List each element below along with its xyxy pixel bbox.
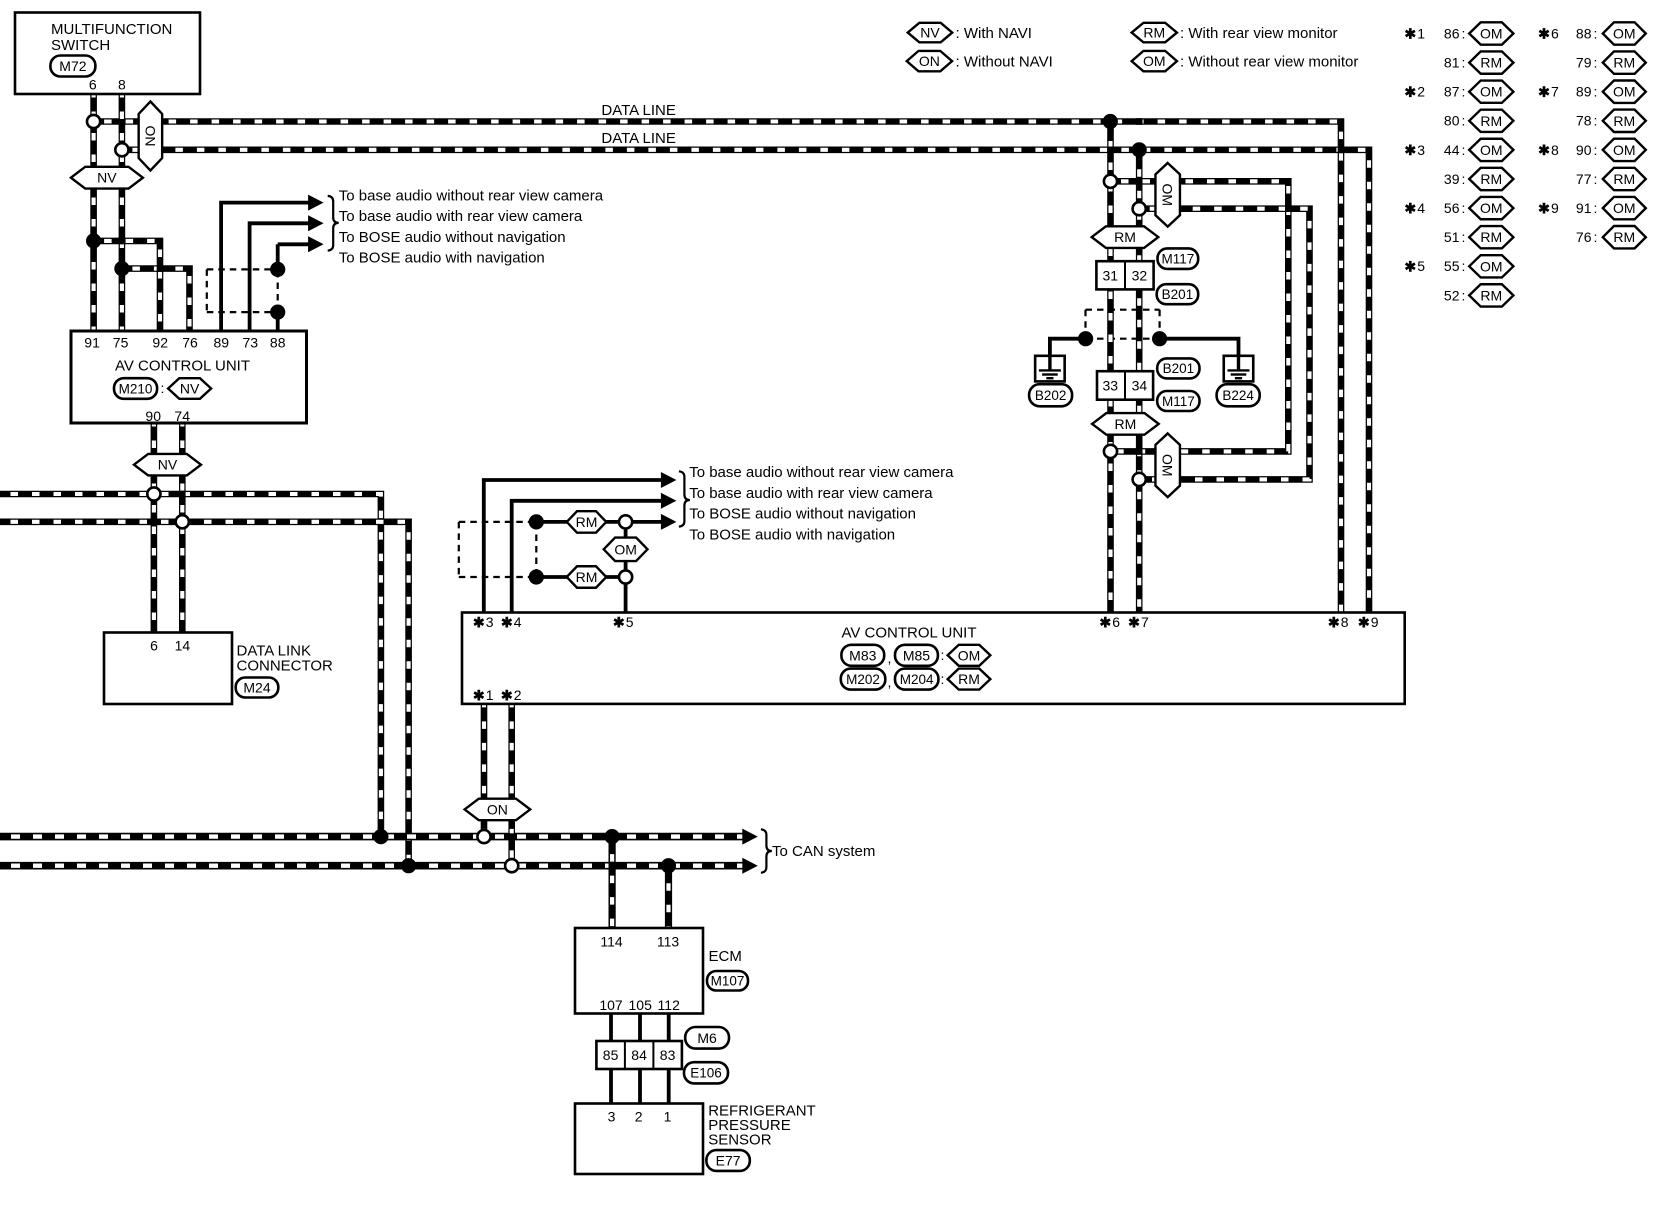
svg-text:OM: OM	[1480, 25, 1503, 41]
arrow to BOSE audio (top)	[308, 236, 324, 252]
svg-text::: :	[941, 647, 945, 663]
junction dot shield top (pin 88)	[270, 262, 285, 277]
pin table left row 87:OM	[1406, 86, 1415, 97]
svg-text:91: 91	[1576, 200, 1592, 216]
svg-text:39: 39	[1444, 171, 1460, 187]
svg-text:5: 5	[626, 614, 634, 630]
connector box 31/32	[1096, 261, 1153, 289]
svg-text:2: 2	[514, 687, 522, 703]
svg-text:RM: RM	[1613, 171, 1635, 187]
option RM hexagon	[948, 669, 991, 690]
multifunction switch M72 box	[15, 13, 200, 95]
wire AV control unit *4 to base audio arrow	[512, 501, 664, 613]
svg-text:OM: OM	[614, 541, 637, 557]
pin table left row 55:OM	[1406, 261, 1415, 272]
connector M107	[707, 971, 748, 991]
svg-text:To BOSE audio without navigati: To BOSE audio without navigation	[689, 506, 916, 523]
svg-text:7: 7	[1551, 84, 1559, 100]
svg-text:NV: NV	[920, 25, 940, 41]
bracket middle group	[679, 471, 690, 526]
svg-text::: :	[1462, 55, 1466, 71]
svg-text:77: 77	[1576, 171, 1592, 187]
svg-text:OM: OM	[1160, 454, 1176, 477]
svg-text:,: ,	[888, 650, 892, 666]
wire right vertical V2 (data line) to *7	[1136, 150, 1143, 613]
svg-text::: :	[1462, 113, 1466, 129]
wire AV control unit pin 74 to data link connector pin 14	[179, 423, 186, 633]
wire AV control unit pin 90 to data link connector pin 6	[151, 423, 158, 633]
connector B224	[1217, 384, 1260, 406]
svg-text:RM: RM	[958, 671, 980, 687]
svg-text:4: 4	[1417, 200, 1425, 216]
svg-text:76: 76	[1576, 229, 1592, 245]
wire ECM pin 107 to joint connector 85	[609, 1014, 613, 1042]
connector box 33/34	[1097, 371, 1153, 400]
svg-text:OM: OM	[958, 647, 981, 663]
svg-text:RM: RM	[1613, 113, 1635, 129]
wire AV control unit *1 to CAN line H	[481, 704, 488, 837]
node open circle 90/data line 3	[147, 487, 160, 500]
svg-text:To base audio without rear vie: To base audio without rear view camera	[689, 464, 954, 481]
svg-text:RM: RM	[1480, 287, 1502, 303]
bracket CAN	[761, 829, 772, 872]
svg-text:M202: M202	[846, 672, 880, 687]
connector M202	[841, 669, 886, 690]
node open circle bypass1 top	[1104, 175, 1117, 188]
wire branch to AV control unit pin 92	[94, 241, 160, 331]
svg-text:2: 2	[635, 1109, 643, 1125]
svg-text::: :	[1594, 229, 1598, 245]
svg-text:OM: OM	[1480, 142, 1503, 158]
svg-text:2: 2	[1417, 84, 1425, 100]
svg-text:To base audio with rear view c: To base audio with rear view camera	[689, 485, 933, 502]
arrow CAN H	[742, 829, 758, 845]
svg-text:34: 34	[1132, 378, 1148, 394]
pin *7	[1129, 617, 1138, 628]
wire AV control unit pin 89 to base audio arrow	[221, 203, 317, 331]
svg-text:105: 105	[629, 997, 653, 1013]
arrow CAN L	[742, 858, 758, 874]
svg-text::: :	[1594, 25, 1598, 41]
pin *4	[502, 617, 511, 628]
node open circle bypass2 top	[1133, 202, 1146, 215]
svg-text:79: 79	[1576, 55, 1592, 71]
connector M85	[895, 645, 938, 666]
wire ECM pin 112 to joint connector 83	[667, 1014, 671, 1042]
node open circle *1/CAN H	[477, 830, 490, 843]
svg-text::: :	[161, 380, 165, 396]
svg-text:32: 32	[1132, 268, 1148, 284]
svg-text:113: 113	[657, 934, 680, 950]
option RM hexagon middle 1	[567, 511, 607, 533]
svg-text:1: 1	[664, 1109, 672, 1125]
svg-text:OM: OM	[1613, 142, 1636, 158]
svg-text:92: 92	[152, 335, 168, 351]
wire OM bypass loop 1	[1111, 181, 1289, 451]
node open circle bypass2 bottom	[1133, 473, 1146, 486]
wire data line 4 (left) to CAN junction	[0, 522, 409, 866]
connector B201	[1157, 358, 1199, 378]
node open circle 74/data line 4	[176, 515, 189, 528]
svg-text:14: 14	[175, 638, 191, 654]
svg-text:NV: NV	[158, 457, 178, 473]
svg-text:44: 44	[1444, 142, 1460, 158]
junction dot shield bottom (pin 88)	[270, 305, 285, 320]
svg-text::: :	[1462, 200, 1466, 216]
junction dot data line2/V2	[1132, 142, 1147, 157]
svg-text:9: 9	[1551, 200, 1559, 216]
connector M72	[50, 56, 95, 77]
svg-text:B202: B202	[1035, 388, 1067, 403]
arrow to base audio with rear view camera (top)	[308, 215, 324, 231]
svg-text:RM: RM	[1143, 25, 1165, 41]
wire splice to RM 2	[536, 575, 625, 579]
wire multifunction switch pin 8 to AV control unit pin 75	[119, 94, 126, 331]
pin table right row 88:OM	[1539, 28, 1548, 39]
svg-text::: :	[1462, 142, 1466, 158]
node open circle pin8/data line 2	[115, 143, 128, 156]
option ON hexagon vertical (data lines)	[139, 102, 163, 171]
legend ON hexagon	[907, 51, 952, 71]
svg-text:: Without NAVI: : Without NAVI	[956, 54, 1053, 71]
svg-text:M210: M210	[119, 381, 153, 396]
option ON hexagon (*1/*2 wires)	[465, 799, 531, 821]
wire branch to AV control unit pin 76	[122, 269, 190, 331]
wire splice to RM 1	[536, 520, 625, 524]
pin table right row 89:OM	[1539, 86, 1548, 97]
svg-text:OM: OM	[1480, 258, 1503, 274]
svg-text:M107: M107	[711, 974, 745, 989]
svg-text:6: 6	[1112, 614, 1120, 630]
svg-text:3: 3	[486, 614, 494, 630]
pin *5	[614, 617, 623, 628]
svg-text:RM: RM	[1480, 113, 1502, 129]
pin *9	[1359, 617, 1368, 628]
connector M204	[895, 669, 938, 690]
arrow to base audio w/o rear view camera (middle)	[661, 472, 677, 488]
wire CAN line H to CAN system	[0, 833, 744, 841]
svg-text:SENSOR: SENSOR	[708, 1131, 772, 1148]
svg-text:80: 80	[1444, 113, 1460, 129]
connector B202	[1029, 384, 1072, 406]
svg-text:M204: M204	[900, 672, 934, 687]
svg-text:86: 86	[1444, 25, 1460, 41]
svg-text:: Without rear view monitor: : Without rear view monitor	[1180, 54, 1358, 71]
svg-text::: :	[1462, 84, 1466, 100]
connector M6	[685, 1027, 729, 1049]
wire data line 1 DATA LINE from multifunction switch pin 6 to *8	[94, 122, 1341, 614]
svg-text:RM: RM	[1114, 229, 1136, 245]
svg-text:To BOSE audio with navigation: To BOSE audio with navigation	[339, 250, 545, 267]
svg-text::: :	[1462, 25, 1466, 41]
svg-text:MULTIFUNCTION: MULTIFUNCTION	[51, 21, 172, 38]
svg-text:ON: ON	[487, 801, 508, 817]
svg-text:RM: RM	[1480, 229, 1502, 245]
svg-text:B201: B201	[1163, 361, 1195, 376]
wire CAN line H to ECM pin 114	[608, 837, 615, 928]
junction dot CAN L / ECM 113	[661, 858, 676, 873]
svg-text:83: 83	[660, 1047, 676, 1063]
pin table left row 44:OM	[1406, 145, 1415, 156]
connector M210	[114, 378, 157, 399]
joint connector box 85/84/83	[596, 1041, 682, 1069]
pin *2	[502, 690, 511, 701]
svg-text:85: 85	[603, 1047, 619, 1063]
svg-text:To BOSE audio with navigation: To BOSE audio with navigation	[689, 527, 895, 544]
svg-text:88: 88	[1576, 25, 1592, 41]
svg-text:DATA LINE: DATA LINE	[601, 102, 675, 119]
svg-text:ON: ON	[919, 53, 940, 69]
svg-text:84: 84	[631, 1047, 647, 1063]
svg-text:B224: B224	[1222, 388, 1254, 403]
node open circle bypass1 bottom	[1104, 445, 1117, 458]
svg-text:To base audio with rear view c: To base audio with rear view camera	[339, 208, 583, 225]
svg-text::: :	[1594, 113, 1598, 129]
svg-text:OM: OM	[1160, 184, 1176, 207]
svg-text:NV: NV	[97, 170, 117, 186]
svg-text:6: 6	[1551, 25, 1559, 41]
svg-text:E77: E77	[716, 1152, 741, 1168]
svg-text:OM: OM	[1480, 84, 1503, 100]
svg-text::: :	[1594, 55, 1598, 71]
ground B202	[1035, 356, 1065, 382]
option OM hexagon middle	[604, 538, 648, 562]
svg-text:78: 78	[1576, 113, 1592, 129]
option OM hexagon	[948, 645, 991, 666]
svg-text::: :	[1594, 84, 1598, 100]
svg-text:M24: M24	[243, 679, 270, 695]
svg-text:91: 91	[84, 335, 100, 351]
svg-text:73: 73	[243, 335, 259, 351]
pin table left row 86:OM	[1406, 28, 1415, 39]
svg-text:To BOSE audio without navigati: To BOSE audio without navigation	[339, 229, 566, 246]
pin table right row 90:OM	[1539, 145, 1548, 156]
svg-text::: :	[941, 671, 945, 687]
svg-text:114: 114	[600, 934, 623, 950]
svg-text:E106: E106	[690, 1066, 722, 1081]
svg-text:: With NAVI: : With NAVI	[956, 25, 1032, 42]
svg-text:75: 75	[113, 335, 129, 351]
shield dashed box near AV control unit M210 pins 89/73/88	[207, 268, 278, 270]
pin *3	[474, 617, 483, 628]
junction dot shield right / B224	[1152, 331, 1167, 346]
svg-text::: :	[1594, 200, 1598, 216]
junction dot data line4/CAN L	[401, 858, 416, 873]
connector M83	[841, 645, 884, 666]
connector E77	[706, 1150, 749, 1171]
wire data line 3 (left) to CAN junction	[0, 494, 381, 837]
wire CAN line L to ECM pin 113	[665, 866, 672, 928]
svg-text:6: 6	[150, 638, 158, 654]
svg-text:1: 1	[1417, 25, 1425, 41]
AV control unit M210 box	[71, 331, 307, 423]
ground B224	[1224, 356, 1254, 382]
svg-text:RM: RM	[1115, 416, 1137, 432]
splice dot RM2	[529, 569, 544, 584]
node open circle RM2	[619, 570, 632, 583]
svg-text:M117: M117	[1161, 251, 1194, 266]
svg-text:OM: OM	[1613, 25, 1636, 41]
svg-text:SWITCH: SWITCH	[51, 37, 110, 54]
junction dot branch 76	[114, 261, 129, 276]
connector M117	[1157, 391, 1199, 411]
option NV hexagon (multifunction wires)	[71, 167, 143, 189]
node open circle pin6/data line 1	[87, 115, 100, 128]
svg-text:AV CONTROL UNIT: AV CONTROL UNIT	[841, 625, 976, 642]
svg-text:RM: RM	[1480, 55, 1502, 71]
shield dashed box middle (*3/*4 area)	[459, 521, 537, 523]
legend OM hexagon	[1132, 51, 1177, 71]
svg-text:89: 89	[214, 335, 230, 351]
node open circle *2/CAN L	[505, 859, 518, 872]
svg-text:87: 87	[1444, 84, 1460, 100]
wire shield splice to ground B202	[1050, 339, 1086, 357]
wire shield splice to ground B224	[1160, 339, 1239, 357]
arrow to base audio with rear view camera (middle)	[661, 493, 677, 509]
connector B201	[1157, 284, 1199, 304]
svg-text:To base audio without rear vie: To base audio without rear view camera	[339, 188, 604, 205]
svg-text:M83: M83	[849, 647, 876, 663]
svg-text:3: 3	[1417, 142, 1425, 158]
svg-text:31: 31	[1103, 268, 1119, 284]
svg-text:33: 33	[1103, 378, 1119, 394]
svg-text:51: 51	[1444, 229, 1460, 245]
svg-text:DATA LINE: DATA LINE	[601, 130, 675, 147]
option RM hexagon top	[1092, 226, 1159, 248]
refrigerant pressure sensor box	[575, 1104, 703, 1175]
svg-text:OM: OM	[1143, 53, 1166, 69]
bracket top group	[328, 196, 339, 251]
svg-text:90: 90	[1576, 142, 1592, 158]
svg-text::: :	[1462, 229, 1466, 245]
node open circle RM1/OM	[619, 515, 632, 528]
junction dot CAN H / ECM 114	[605, 829, 620, 844]
junction dot shield left / B202	[1078, 331, 1093, 346]
svg-text:M85: M85	[903, 647, 930, 663]
svg-text:90: 90	[145, 408, 161, 424]
svg-text:: With rear view monitor: : With rear view monitor	[1180, 25, 1338, 42]
option NV hexagon below AV unit	[134, 454, 201, 476]
wire AV control unit *2 to CAN line L	[508, 704, 515, 866]
svg-text:9: 9	[1371, 614, 1379, 630]
svg-text:8: 8	[1341, 614, 1349, 630]
pin table right row 91:OM	[1539, 203, 1548, 214]
svg-text:RM: RM	[1613, 55, 1635, 71]
wire AV control unit pin 73 to base audio arrow	[250, 223, 317, 331]
svg-text:To CAN system: To CAN system	[772, 843, 875, 860]
svg-text:M117: M117	[1162, 394, 1195, 409]
svg-text:B201: B201	[1162, 287, 1194, 302]
svg-text:ECM: ECM	[709, 948, 742, 965]
wire ECM pin 105 to joint connector 84	[638, 1014, 642, 1042]
wire OM bypass loop 2	[1139, 209, 1309, 480]
svg-text:OM: OM	[1613, 84, 1636, 100]
svg-text:107: 107	[599, 997, 623, 1013]
ECM box	[575, 928, 703, 1014]
junction dot data line1/V1	[1103, 114, 1118, 129]
svg-text:5: 5	[1417, 258, 1425, 274]
svg-text:RM: RM	[1480, 171, 1502, 187]
svg-text:AV CONTROL UNIT: AV CONTROL UNIT	[115, 358, 250, 375]
svg-text:74: 74	[174, 408, 190, 424]
wire AV control unit pin 88 to BOSE audio arrow	[278, 242, 317, 246]
svg-text:ON: ON	[142, 126, 158, 147]
svg-text:81: 81	[1444, 55, 1460, 71]
svg-text:7: 7	[1141, 614, 1149, 630]
svg-text:CONNECTOR: CONNECTOR	[237, 658, 334, 675]
svg-text:56: 56	[1444, 200, 1460, 216]
svg-text::: :	[1462, 258, 1466, 274]
svg-text:112: 112	[658, 997, 681, 1013]
arrow to base audio w/o rear view camera (top)	[308, 195, 324, 211]
svg-text:76: 76	[182, 335, 198, 351]
svg-text:M72: M72	[59, 58, 86, 74]
svg-text::: :	[1462, 171, 1466, 187]
pin *8	[1329, 617, 1338, 628]
junction dot data line3/CAN H	[373, 829, 388, 844]
pin *6	[1101, 617, 1110, 628]
option OM hexagon vertical top	[1155, 163, 1180, 227]
shield dashed box right (B201 connectors)	[1086, 309, 1160, 311]
svg-text:RM: RM	[576, 569, 598, 585]
svg-text:RM: RM	[1613, 229, 1635, 245]
option RM hexagon bottom	[1092, 413, 1159, 435]
data link connector M24 box	[104, 633, 232, 705]
svg-text:88: 88	[270, 335, 286, 351]
svg-text::: :	[1594, 142, 1598, 158]
legend RM hexagon	[1132, 23, 1177, 42]
arrow to BOSE audio (middle)	[661, 514, 677, 530]
option OM hexagon vertical bottom	[1155, 433, 1180, 497]
svg-text:55: 55	[1444, 258, 1460, 274]
wire right vertical V1 (data line) to *6	[1107, 122, 1114, 614]
splice dot RM1	[529, 514, 544, 529]
svg-text:,: ,	[888, 674, 892, 690]
option NV hexagon	[168, 378, 211, 399]
legend NV hexagon	[908, 23, 953, 42]
pin *1	[474, 690, 483, 701]
svg-text:52: 52	[1444, 287, 1460, 303]
svg-text:1: 1	[486, 687, 494, 703]
svg-text:8: 8	[1551, 142, 1559, 158]
svg-text:8: 8	[118, 77, 126, 93]
svg-text:NV: NV	[180, 380, 200, 396]
AV control unit M83/M85 box	[462, 613, 1405, 704]
svg-text:OM: OM	[1613, 200, 1636, 216]
pin table left row 56:OM	[1406, 203, 1415, 214]
svg-text:4: 4	[514, 614, 522, 630]
svg-text:RM: RM	[576, 514, 598, 530]
junction dot branch 92	[86, 233, 101, 248]
connector M117	[1158, 248, 1199, 269]
svg-text::: :	[1594, 171, 1598, 187]
wire data line 2 DATA LINE from multifunction switch pin 8 to *9	[122, 150, 1369, 613]
wire AV control unit *5 through OM/RM to BOSE audio arrow	[626, 522, 664, 613]
wire AV control unit *3 to base audio arrow	[484, 480, 664, 613]
wire multifunction switch pin 6 to AV control unit pin 91	[90, 94, 97, 331]
svg-text:6: 6	[89, 77, 97, 93]
svg-text::: :	[1462, 287, 1466, 303]
connector E106	[684, 1062, 728, 1083]
svg-text:3: 3	[608, 1109, 616, 1125]
svg-text:M6: M6	[697, 1030, 717, 1046]
svg-text:89: 89	[1576, 84, 1592, 100]
connector M24	[236, 678, 279, 698]
svg-text:OM: OM	[1480, 200, 1503, 216]
option RM hexagon middle 2	[567, 566, 607, 588]
wire CAN line L to CAN system	[0, 862, 744, 870]
